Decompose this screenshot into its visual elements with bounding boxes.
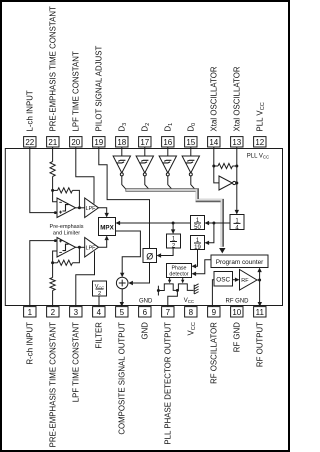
svg-text:50: 50 bbox=[194, 225, 201, 231]
svg-text:MPX: MPX bbox=[100, 225, 114, 232]
wire U3 output to pin13 line bbox=[236, 182, 237, 184]
transistor Q1 (charge pump source) bbox=[158, 284, 177, 291]
wire RF output to pin11 bbox=[259, 280, 261, 303]
pin 21 bbox=[47, 137, 59, 148]
inverter U3 (xtal oscillator) bbox=[219, 176, 236, 190]
wire pin D3 to input buffer bbox=[121, 147, 123, 156]
pin 22 bbox=[24, 137, 36, 148]
phase shifter block (pilot) bbox=[143, 249, 157, 263]
pin 19 bbox=[93, 137, 105, 148]
svg-text:LPF: LPF bbox=[86, 206, 97, 212]
node A (reference distribution) bbox=[212, 222, 215, 225]
OSC block (RF oscillator) bbox=[214, 272, 233, 287]
node U3 output bbox=[235, 182, 238, 185]
wire divider 1/2 to phase shifter bbox=[160, 248, 173, 256]
svg-text:20: 20 bbox=[71, 138, 80, 147]
svg-text:19: 19 bbox=[94, 138, 103, 147]
phase detector block bbox=[167, 264, 192, 278]
node: charge pump output bbox=[176, 289, 179, 292]
svg-text:9: 9 bbox=[212, 308, 217, 317]
resistor R3 (U2 feedback) bbox=[58, 260, 73, 265]
svg-text:15: 15 bbox=[186, 138, 195, 147]
svg-text:LPF TIME CONSTANT: LPF TIME CONSTANT bbox=[72, 51, 81, 131]
resistor R4 (pin 2 time-constant, vertical) bbox=[52, 263, 54, 278]
pin 12 bbox=[254, 137, 266, 148]
node B (to pilot 1/2 divider) bbox=[172, 222, 175, 225]
pin 2 bbox=[47, 307, 59, 318]
node: U1 output bbox=[78, 206, 81, 209]
wire pin D0 to input buffer bbox=[190, 147, 192, 156]
IC body outline bbox=[5, 149, 282, 306]
svg-text:Ø: Ø bbox=[146, 251, 153, 261]
svg-text:and Limiter: and Limiter bbox=[53, 230, 80, 236]
wire U2 output to LPF2 bbox=[76, 246, 85, 248]
wire pin20 to LPF1 (LPF time constant) bbox=[76, 147, 94, 204]
wire 38kHz subcarrier: divider 1/50 to MPX right input bbox=[119, 222, 191, 224]
resistor R1 (pin 21 time-constant, vertical) bbox=[52, 147, 54, 162]
pin 13 bbox=[231, 137, 243, 148]
svg-text:RF: RF bbox=[241, 278, 249, 284]
adder (composite summing) bbox=[116, 277, 128, 289]
wire pin19 (pilot signal adjust) to phase shifter bbox=[99, 147, 150, 249]
svg-text:R-ch INPUT: R-ch INPUT bbox=[26, 322, 35, 365]
svg-text:LPF: LPF bbox=[86, 246, 97, 252]
wire divider 1/4 output to node A bbox=[214, 222, 230, 224]
svg-text:7: 7 bbox=[166, 308, 171, 317]
Vcc/2 bias block bbox=[93, 281, 107, 297]
svg-text:LPF TIME CONSTANT: LPF TIME CONSTANT bbox=[72, 322, 81, 402]
ground hatch (charge pump sink) bbox=[194, 284, 198, 294]
resistor R5 (crystal feedback) bbox=[214, 165, 218, 167]
wire OSC to pin9 bbox=[212, 280, 214, 307]
svg-text:COMPOSITE SIGNAL OUTPUT: COMPOSITE SIGNAL OUTPUT bbox=[118, 322, 127, 435]
wire divider 1/19 to phase detector reference input bbox=[195, 250, 198, 267]
wire MPX output to adder top input bbox=[116, 231, 141, 274]
pin 7 bbox=[162, 307, 174, 318]
node: U2 output bbox=[78, 246, 81, 249]
svg-text:17: 17 bbox=[140, 138, 149, 147]
wire pin13 down to divider 1/4 bbox=[236, 147, 238, 211]
wire phase detector gate drive (right) bbox=[182, 278, 184, 281]
program counter block bbox=[211, 255, 268, 268]
wire/switch buffer D0 to program bus bbox=[191, 176, 196, 190]
svg-text:22: 22 bbox=[25, 138, 34, 147]
svg-text:PILOT SIGNAL ADJUST: PILOT SIGNAL ADJUST bbox=[95, 45, 104, 131]
pin 6 bbox=[139, 307, 151, 318]
node pin14/resistor bbox=[212, 165, 215, 168]
node: U2 inverting input junction bbox=[51, 261, 54, 264]
pin 10 bbox=[231, 307, 243, 318]
wire R2 to U1 output bbox=[73, 190, 80, 207]
svg-text:5: 5 bbox=[120, 308, 125, 317]
schmitt input buffer D0 bbox=[182, 156, 199, 176]
pin 18 bbox=[116, 137, 128, 148]
svg-text:Program counter: Program counter bbox=[216, 259, 264, 266]
wire junction to U1 inverting input bbox=[53, 190, 57, 201]
pin 9 bbox=[208, 307, 220, 318]
pin 17 bbox=[139, 137, 151, 148]
transistor Q2 (charge pump sink) bbox=[177, 284, 193, 291]
svg-text:11: 11 bbox=[256, 308, 265, 317]
wire junction to U2 inverting input bbox=[53, 251, 57, 263]
wire pin D2 to input buffer bbox=[144, 147, 146, 156]
resistor R2 (U1 feedback) bbox=[58, 188, 73, 193]
svg-text:PRE-EMPHASIS TIME CONSTANT: PRE-EMPHASIS TIME CONSTANT bbox=[49, 322, 58, 448]
svg-text:PRE-EMPHASIS TIME CONSTANT: PRE-EMPHASIS TIME CONSTANT bbox=[49, 6, 58, 132]
wire R3 to U2 output bbox=[73, 247, 80, 262]
wire pin22 to op-amp U1 non-inverting input bbox=[30, 147, 57, 213]
wire/switch buffer D3 to program bus bbox=[122, 176, 127, 190]
svg-text:RF OUTPUT: RF OUTPUT bbox=[256, 322, 265, 367]
data bus (D0-D3) to program counter bbox=[125, 190, 222, 247]
wire charge pump output to pin7 bbox=[168, 290, 178, 306]
wire LPF1 to MPX top input bbox=[99, 208, 107, 213]
svg-text:8: 8 bbox=[189, 308, 194, 317]
schmitt input buffer D2 bbox=[136, 156, 153, 176]
pin 1 bbox=[24, 307, 36, 318]
svg-text:10: 10 bbox=[232, 308, 241, 317]
svg-text:OSC: OSC bbox=[216, 276, 230, 283]
wire pin1 to op-amp U2 non-inverting input bbox=[30, 241, 57, 307]
wire program counter to phase detector comparison input bbox=[195, 260, 211, 274]
wire phase shifter to adder right input bbox=[132, 263, 150, 284]
svg-text:3: 3 bbox=[74, 308, 79, 317]
wire Vcc/2 to pin4 (filter) bbox=[98, 296, 100, 307]
svg-text:L-ch INPUT: L-ch INPUT bbox=[26, 90, 35, 131]
schmitt input buffer D1 bbox=[159, 156, 176, 176]
RF amplifier bbox=[240, 270, 258, 291]
wire U1 output to LPF1 bbox=[76, 207, 85, 209]
wire/switch buffer D1 to program bus bbox=[168, 176, 173, 190]
svg-text:Xtal OSCILLATOR: Xtal OSCILLATOR bbox=[233, 66, 242, 131]
svg-text:18: 18 bbox=[117, 138, 126, 147]
wire LPF2 to MPX bottom input bbox=[99, 240, 107, 248]
svg-text:1: 1 bbox=[28, 308, 33, 317]
divider block 1/19 bbox=[191, 236, 205, 252]
svg-text:13: 13 bbox=[232, 138, 241, 147]
svg-text:RF GND: RF GND bbox=[226, 299, 250, 305]
wire pin D1 to input buffer bbox=[167, 147, 169, 156]
svg-text:GND: GND bbox=[141, 322, 150, 340]
pin 20 bbox=[70, 137, 82, 148]
wire RF amp output node bbox=[257, 279, 260, 281]
wire pin14 to inverter U3 input bbox=[214, 147, 219, 183]
wire node A down into divider 1/19 bbox=[208, 223, 214, 243]
svg-text:PLL PHASE DETECTOR OUTPUT: PLL PHASE DETECTOR OUTPUT bbox=[164, 322, 173, 445]
op-amp U1 (L-ch pre-emphasis and limiter) bbox=[57, 198, 76, 218]
schmitt input buffer D3 bbox=[113, 156, 130, 176]
node Q1 source stub bbox=[157, 289, 160, 292]
op-amp U2 (R-ch pre-emphasis and limiter) bbox=[57, 238, 76, 258]
svg-text:16: 16 bbox=[163, 138, 172, 147]
pin 16 bbox=[162, 137, 174, 148]
svg-text:VCC: VCC bbox=[184, 298, 194, 304]
svg-text:12: 12 bbox=[255, 138, 264, 147]
svg-text:GND: GND bbox=[139, 299, 153, 305]
svg-text:RF GND: RF GND bbox=[233, 322, 242, 353]
pin 5 bbox=[116, 307, 128, 318]
wire node A into divider 1/50 bbox=[208, 222, 214, 224]
wire phase detector gate drive (left) bbox=[169, 278, 171, 281]
pin 11 bbox=[254, 307, 266, 318]
pin 4 bbox=[93, 307, 105, 318]
wire pin3 to LPF2 (LPF time constant) bbox=[76, 251, 95, 306]
svg-text:RF OSCILLATOR: RF OSCILLATOR bbox=[210, 322, 219, 384]
divider block 1/2 (pilot) bbox=[167, 234, 181, 250]
wire node B into divider 1/2 bbox=[172, 223, 174, 231]
node pin13/resistor bbox=[235, 165, 238, 168]
svg-text:2: 2 bbox=[51, 308, 56, 317]
pin 14 bbox=[208, 137, 220, 148]
wire OSC to RF amp bbox=[233, 279, 237, 281]
pin 15 bbox=[185, 137, 197, 148]
divider block 1/4 bbox=[230, 215, 244, 232]
svg-text:Xtal OSCILLATOR: Xtal OSCILLATOR bbox=[210, 66, 219, 131]
svg-text:PLL VCC: PLL VCC bbox=[247, 154, 269, 160]
svg-text:21: 21 bbox=[48, 138, 57, 147]
pin 3 bbox=[70, 307, 82, 318]
MPX stereo multiplexer block bbox=[99, 218, 116, 236]
LPF block LPF1 (L-ch) bbox=[85, 198, 99, 218]
svg-text:4: 4 bbox=[97, 308, 102, 317]
wire RF output feedback to program counter bbox=[259, 271, 261, 280]
svg-text:6: 6 bbox=[143, 308, 148, 317]
svg-text:FILTER: FILTER bbox=[95, 322, 104, 349]
pin 8 bbox=[185, 307, 197, 318]
wire adder output to pin5 bbox=[121, 289, 123, 303]
svg-text:14: 14 bbox=[209, 138, 218, 147]
LPF block LPF2 (R-ch) bbox=[85, 238, 99, 258]
wire/switch buffer D2 to program bus bbox=[145, 176, 150, 190]
divider block 1/50 bbox=[191, 216, 205, 232]
svg-text:Pre-emphasis: Pre-emphasis bbox=[50, 224, 84, 230]
node: U1 inverting input junction bbox=[51, 189, 54, 192]
svg-text:detector: detector bbox=[169, 272, 188, 278]
